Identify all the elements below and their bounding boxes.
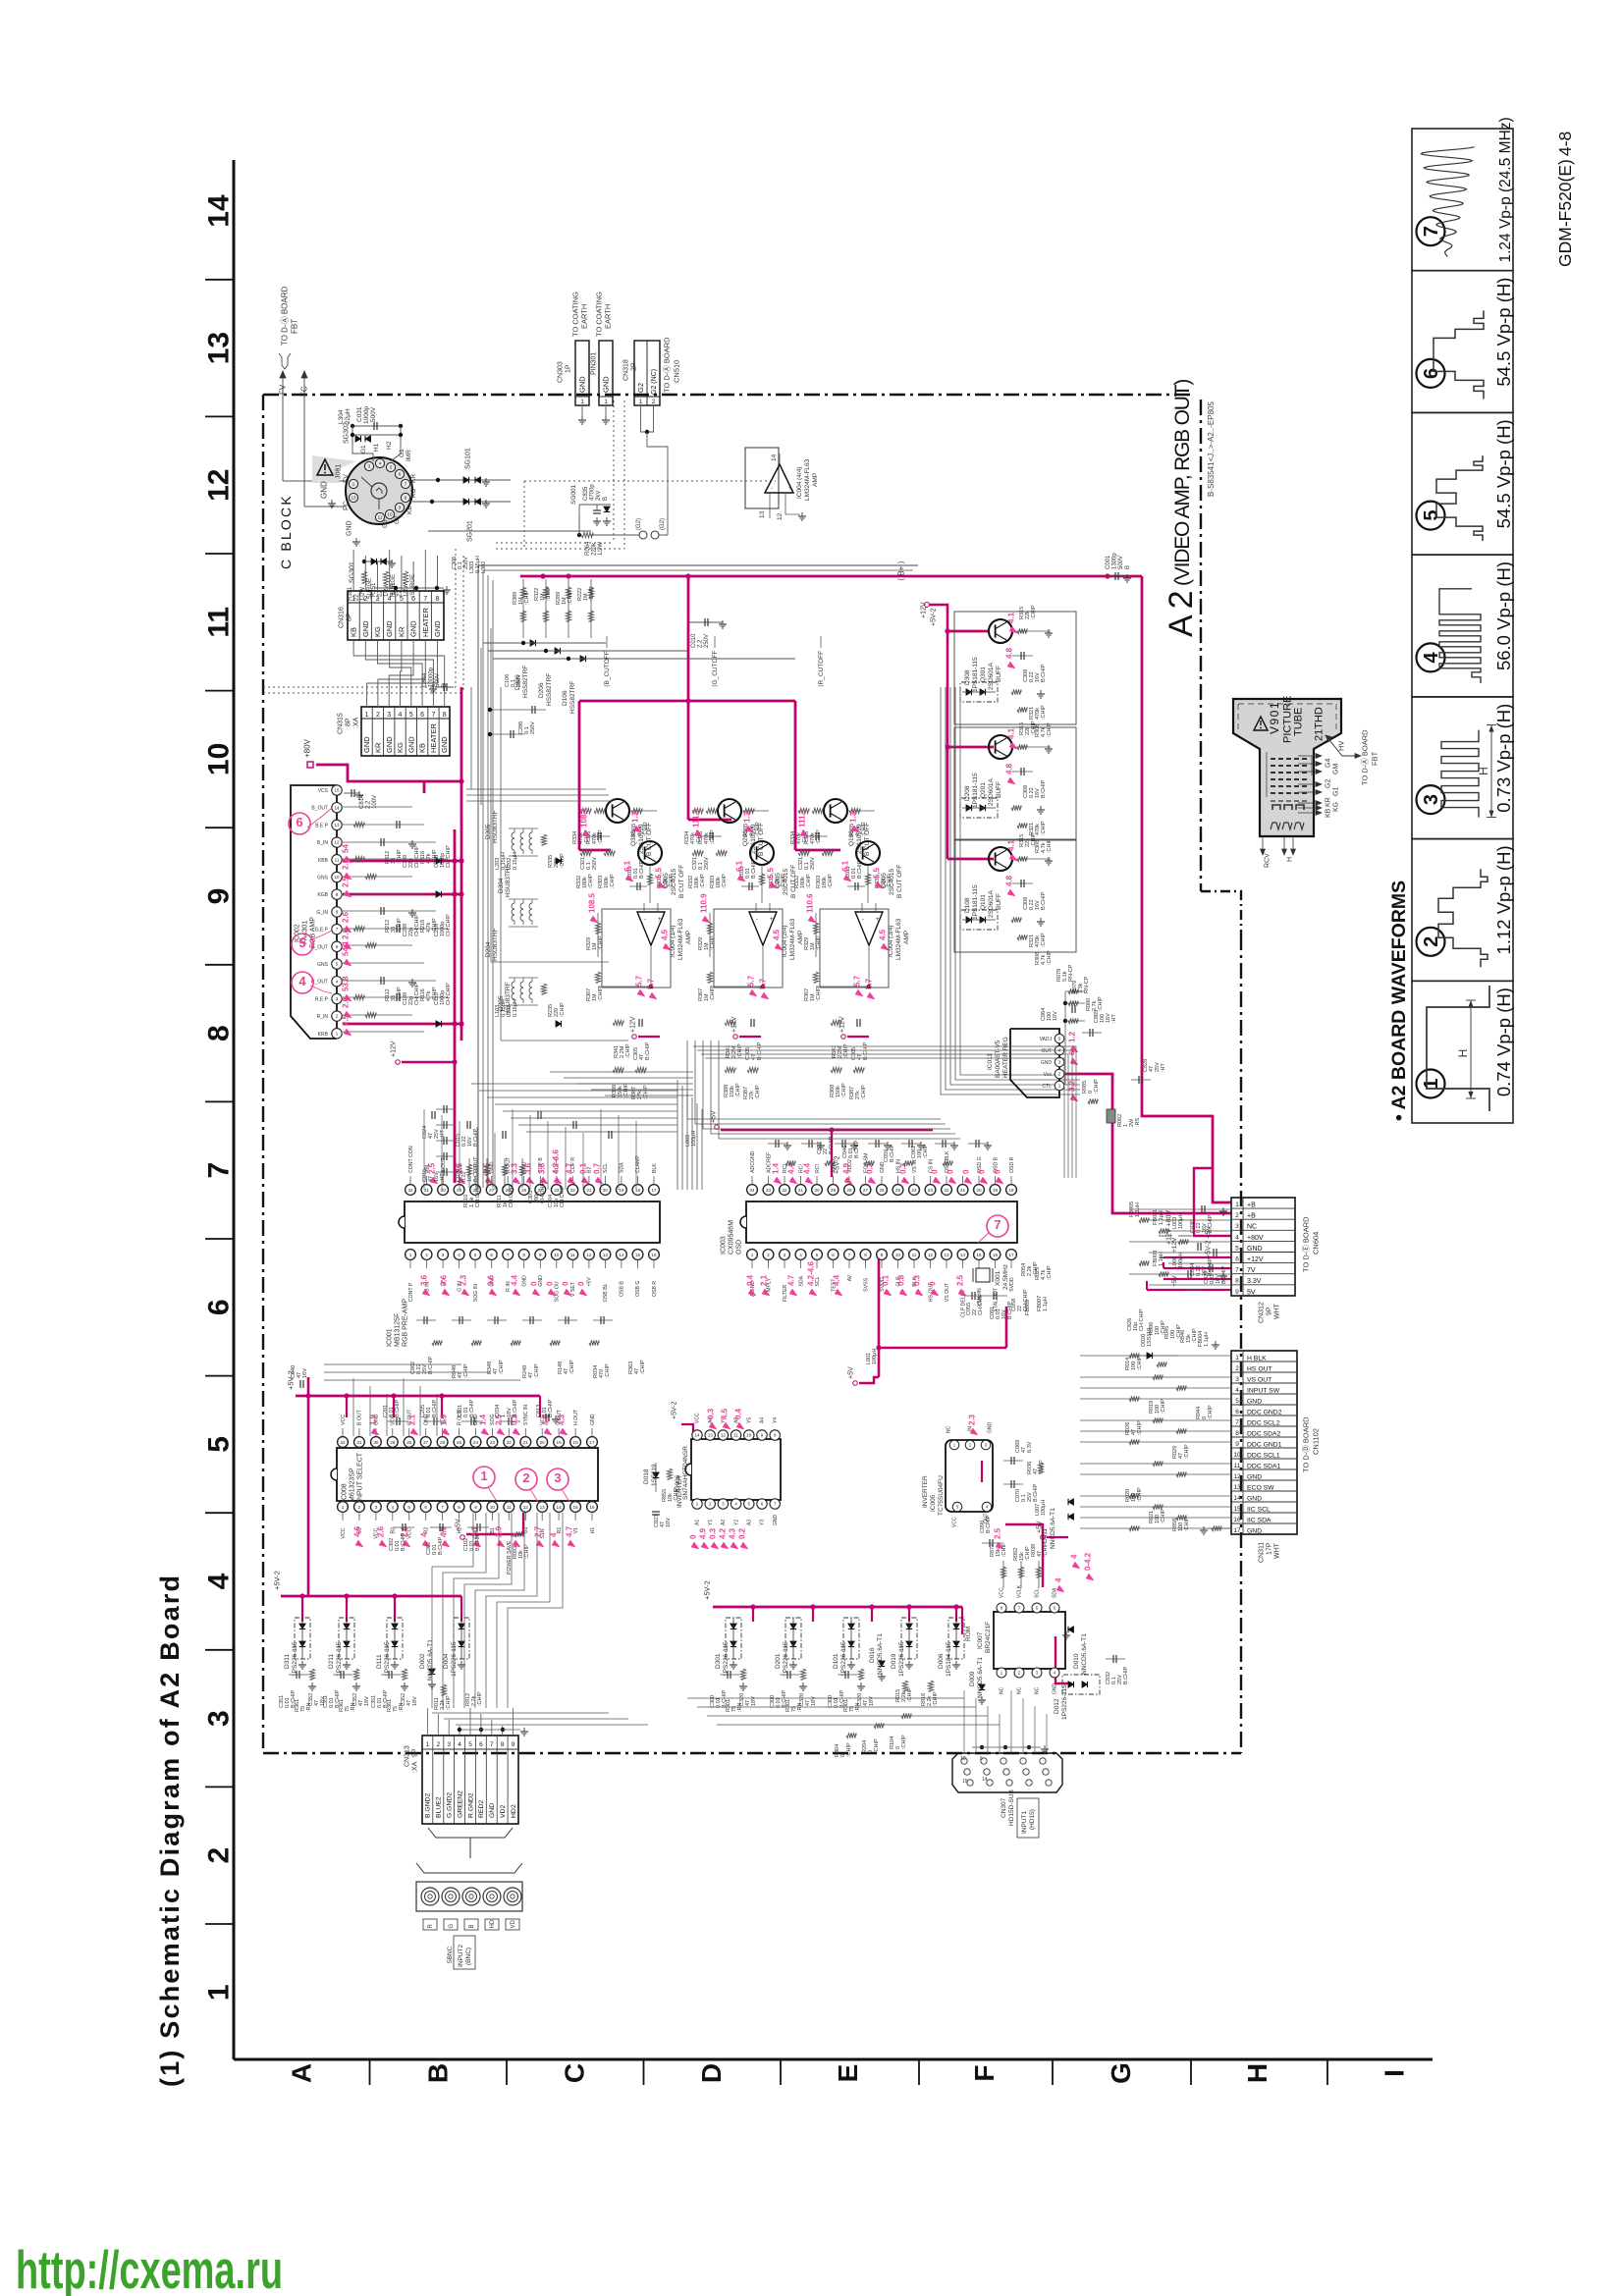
svg-text:R014: R014 bbox=[1125, 1358, 1131, 1370]
svg-text:Q101: Q101 bbox=[980, 894, 987, 910]
caps row above IC001 bbox=[424, 1109, 636, 1190]
svg-text:R303: R303 bbox=[816, 876, 822, 888]
diode array D019 1PS226-115 bbox=[891, 1618, 917, 1677]
connector CN307 HD15D-SUB bbox=[952, 1753, 1062, 1838]
svg-text:R011: R011 bbox=[434, 1697, 440, 1710]
svg-text:5.5: 5.5 bbox=[655, 867, 664, 879]
svg-text:100: 100 bbox=[1131, 1362, 1137, 1370]
svg-text:0.01: 0.01 bbox=[463, 1407, 469, 1417]
svg-text:C816: C816 bbox=[422, 1169, 428, 1182]
svg-text:L007: L007 bbox=[1035, 1504, 1041, 1516]
svg-text:54.5 Vp-p (H): 54.5 Vp-p (H) bbox=[1493, 278, 1514, 387]
IC IC003 CX09546M OSD bbox=[720, 1150, 1017, 1317]
svg-text:TO COATING: TO COATING bbox=[595, 292, 604, 337]
svg-text:+12V: +12V bbox=[390, 1041, 397, 1057]
svg-text:470k: 470k bbox=[592, 832, 598, 844]
svg-text:R334: R334 bbox=[790, 831, 796, 844]
svg-text:ECO SW: ECO SW bbox=[1247, 1485, 1274, 1492]
svg-text::CHIP: :CHIP bbox=[610, 874, 616, 888]
svg-text:H: H bbox=[1286, 857, 1293, 862]
svg-text:C059: C059 bbox=[884, 1149, 890, 1162]
svg-text::CHIP: :CHIP bbox=[781, 874, 786, 888]
svg-text:12: 12 bbox=[777, 512, 784, 520]
svg-text:CX09546M: CX09546M bbox=[728, 1220, 734, 1255]
svg-text::CHIP: :CHIP bbox=[828, 874, 834, 888]
svg-text:HD: HD bbox=[490, 1919, 496, 1928]
svg-text:1PS226-115: 1PS226-115 bbox=[336, 1641, 343, 1677]
svg-text:1PS226-115: 1PS226-115 bbox=[1061, 1684, 1068, 1720]
svg-text:-: - bbox=[644, 917, 646, 923]
svg-text:0.3: 0.3 bbox=[913, 1274, 922, 1286]
svg-text:1PS226-115: 1PS226-115 bbox=[898, 1641, 905, 1677]
svg-text:C058: C058 bbox=[1011, 1299, 1017, 1311]
svg-text:108.1: 108.1 bbox=[580, 807, 589, 828]
svg-text:C001: C001 bbox=[1106, 555, 1111, 569]
svg-text:3: 3 bbox=[375, 1505, 378, 1510]
svg-text:LM324M-FL63: LM324M-FL63 bbox=[789, 918, 796, 960]
svg-text:0: 0 bbox=[978, 1169, 987, 1174]
svg-text:NNCD5.6A-T1: NNCD5.6A-T1 bbox=[1081, 1633, 1088, 1675]
svg-text:1/2W: 1/2W bbox=[404, 583, 409, 597]
svg-text:5.1k: 5.1k bbox=[1062, 971, 1068, 982]
svg-text::RS: :RS bbox=[1135, 1118, 1141, 1128]
waveform box 2: 1.12 Vp-p (H) bbox=[1412, 839, 1514, 982]
svg-text:C308: C308 bbox=[1023, 897, 1029, 910]
svg-text:R916: R916 bbox=[921, 1693, 927, 1706]
svg-text:GM: GM bbox=[1332, 764, 1339, 774]
svg-text:IC003: IC003 bbox=[720, 1236, 727, 1255]
svg-text:RED2: RED2 bbox=[478, 1800, 485, 1818]
svg-text:SDA: SDA bbox=[620, 1162, 625, 1173]
test point 7 (pink) bbox=[978, 1215, 1008, 1243]
svg-text:1M: 1M bbox=[583, 593, 589, 601]
svg-text:CH:CHIP: CH:CHIP bbox=[446, 845, 452, 868]
svg-text:R361: R361 bbox=[387, 1699, 393, 1712]
svg-text:R216: R216 bbox=[420, 920, 426, 933]
svg-text:2.6: 2.6 bbox=[342, 996, 351, 1008]
svg-text:C823: C823 bbox=[654, 1515, 660, 1527]
feedback network ch1 bbox=[692, 808, 783, 1099]
svg-text:Y1: Y1 bbox=[708, 1520, 714, 1525]
svg-text::CHIP: :CHIP bbox=[722, 874, 728, 888]
svg-text:WHT: WHT bbox=[1273, 1303, 1280, 1319]
svg-text:1/2W: 1/2W bbox=[598, 542, 604, 556]
svg-text:RN-CP: RN-CP bbox=[1084, 976, 1090, 993]
svg-text:R029: R029 bbox=[1172, 1446, 1178, 1459]
svg-text:33: 33 bbox=[391, 927, 397, 933]
svg-text:INPUT2: INPUT2 bbox=[458, 1945, 464, 1968]
svg-text:FB007: FB007 bbox=[1037, 1296, 1043, 1311]
svg-text:6: 6 bbox=[296, 815, 302, 829]
svg-text::CHIP: :CHIP bbox=[755, 822, 761, 836]
svg-text:1: 1 bbox=[604, 399, 608, 405]
svg-text::CHIP: :CHIP bbox=[524, 1544, 530, 1559]
svg-text:23: 23 bbox=[928, 1188, 934, 1193]
svg-text:15k: 15k bbox=[996, 1548, 1001, 1557]
svg-text:B:CHIP: B:CHIP bbox=[757, 1041, 763, 1060]
IC IC005 TC75SU04FU INVERTER bbox=[922, 1414, 1003, 1549]
svg-text:+12V: +12V bbox=[1247, 1256, 1264, 1263]
svg-text:19: 19 bbox=[619, 1188, 624, 1193]
svg-text:R367: R367 bbox=[804, 988, 810, 1001]
svg-text:IIC SCL: IIC SCL bbox=[1247, 1507, 1271, 1514]
svg-text:SCL: SCL bbox=[1035, 1588, 1041, 1598]
svg-text:12: 12 bbox=[721, 1433, 727, 1438]
svg-text:R: R bbox=[428, 1924, 434, 1929]
A2 BOARD WAVEFORMS heading bbox=[1388, 881, 1410, 1121]
svg-text::CHIP: :CHIP bbox=[640, 1360, 646, 1374]
svg-text:10: 10 bbox=[895, 1253, 901, 1257]
svg-text:1.3: 1.3 bbox=[849, 811, 858, 823]
svg-text:G.GND2: G.GND2 bbox=[447, 1792, 454, 1818]
svg-text:VS OUT: VS OUT bbox=[945, 1282, 950, 1302]
svg-text:FV: FV bbox=[343, 474, 350, 483]
svg-text:47: 47 bbox=[493, 1368, 499, 1374]
svg-text:4: 4 bbox=[799, 1253, 802, 1257]
svg-text:A4: A4 bbox=[760, 1417, 766, 1423]
svg-text:4.7k: 4.7k bbox=[1041, 954, 1047, 965]
svg-text:L203: L203 bbox=[495, 858, 501, 870]
svg-text:R039: R039 bbox=[1031, 1544, 1037, 1557]
transistor Q101 2SD601A BUFF bbox=[964, 847, 1012, 920]
svg-text:6: 6 bbox=[490, 1253, 493, 1257]
svg-text:R321: R321 bbox=[1029, 707, 1035, 720]
svg-text:+: + bbox=[788, 486, 792, 492]
svg-text:8: 8 bbox=[522, 1253, 525, 1257]
svg-text:0: 0 bbox=[1088, 1091, 1094, 1094]
svg-text:4: 4 bbox=[1235, 1387, 1239, 1394]
svg-text:17P: 17P bbox=[1266, 1542, 1272, 1555]
svg-text:R212: R212 bbox=[385, 920, 391, 933]
svg-text:B:CHIP: B:CHIP bbox=[1123, 1666, 1129, 1684]
svg-text:4.4: 4.4 bbox=[803, 1162, 812, 1174]
svg-text:C320: C320 bbox=[739, 1693, 745, 1706]
diode array D311 1PS226-115 bbox=[284, 1618, 310, 1677]
svg-text:3.6: 3.6 bbox=[487, 1274, 496, 1286]
zener D010 D011 NNCD5.6A-T1 bbox=[1042, 1499, 1094, 1675]
svg-text:31: 31 bbox=[798, 1188, 804, 1193]
svg-text::CHIP: :CHIP bbox=[569, 1360, 575, 1374]
svg-text:4.7k: 4.7k bbox=[426, 990, 432, 1001]
svg-text:B: B bbox=[603, 497, 609, 501]
svg-text:4: 4 bbox=[399, 712, 403, 719]
svg-text:R388: R388 bbox=[830, 1085, 836, 1097]
svg-text:KR: KR bbox=[1325, 797, 1331, 807]
svg-text::CHIP: :CHIP bbox=[710, 935, 716, 950]
svg-text:⟨ B+ ⟩: ⟨ B+ ⟩ bbox=[897, 561, 906, 581]
svg-text:7: 7 bbox=[203, 1162, 236, 1179]
svg-text:4.7: 4.7 bbox=[566, 1525, 574, 1537]
svg-text:1.3: 1.3 bbox=[631, 811, 640, 823]
svg-text:VCC: VCC bbox=[695, 1413, 701, 1423]
IC IC008 M61323SP INPUT SELECT bbox=[331, 1405, 598, 1575]
svg-text:(1) Schematic Diagram of A2 B: (1) Schematic Diagram of A2 Board bbox=[155, 1574, 185, 2087]
svg-text:1: 1 bbox=[480, 1468, 487, 1483]
connector CN312 9P WHT bbox=[1231, 1198, 1321, 1323]
svg-text:12: 12 bbox=[523, 1505, 529, 1510]
svg-text:4.1: 4.1 bbox=[1007, 727, 1016, 739]
svg-text:32: 32 bbox=[340, 1440, 346, 1445]
svg-text:6: 6 bbox=[420, 712, 424, 719]
svg-text:0.4: 0.4 bbox=[746, 1274, 755, 1286]
svg-text:R301: R301 bbox=[843, 1699, 849, 1712]
svg-text:GND: GND bbox=[362, 736, 371, 753]
svg-text:100: 100 bbox=[1100, 1014, 1106, 1023]
socket electrode labels bbox=[320, 422, 418, 546]
IC006 pin annotations (pink) bbox=[689, 1408, 748, 1549]
svg-text:KG: KG bbox=[1332, 802, 1339, 812]
svg-text:9: 9 bbox=[1235, 1289, 1239, 1296]
svg-text::CHIP: :CHIP bbox=[710, 987, 716, 1001]
svg-text:R322: R322 bbox=[534, 588, 540, 601]
svg-text:H OUT: H OUT bbox=[573, 1409, 579, 1425]
svg-text:G1: G1 bbox=[1332, 787, 1339, 796]
svg-text:1M: 1M bbox=[540, 593, 546, 601]
svg-text:220k: 220k bbox=[592, 542, 598, 556]
svg-text:R367: R367 bbox=[586, 988, 592, 1001]
svg-text:L002: L002 bbox=[685, 1135, 691, 1147]
svg-text:R387: R387 bbox=[743, 1087, 749, 1099]
svg-text:16V: 16V bbox=[1106, 1013, 1111, 1023]
op-amp IC004 (1/4) LM324M-FL63 bbox=[586, 860, 692, 1001]
svg-text:R025: R025 bbox=[1035, 1267, 1041, 1280]
svg-text:10: 10 bbox=[334, 875, 340, 880]
opamp cell outlines bbox=[602, 909, 889, 988]
svg-text:GND: GND bbox=[489, 1803, 496, 1818]
svg-text:47: 47 bbox=[751, 1054, 757, 1060]
base resistor network ch2 bbox=[790, 808, 893, 903]
svg-text:H1: H1 bbox=[590, 1527, 596, 1534]
svg-text:5.7: 5.7 bbox=[747, 975, 756, 987]
svg-text:3.3k: 3.3k bbox=[1078, 983, 1084, 993]
svg-text:B.GND2: B.GND2 bbox=[425, 1792, 432, 1818]
svg-text:NNCD5.6A-T1: NNCD5.6A-T1 bbox=[877, 1633, 884, 1675]
svg-text:(HD15): (HD15) bbox=[1029, 1809, 1036, 1830]
svg-text:VCC: VCC bbox=[341, 1415, 347, 1425]
svg-text:R148: R148 bbox=[558, 1362, 564, 1374]
svg-text:GND: GND bbox=[773, 1515, 779, 1526]
svg-text:B CUT OFF: B CUT OFF bbox=[678, 865, 685, 898]
diode array D301 1PS226-115 bbox=[715, 1618, 741, 1677]
svg-text:D019: D019 bbox=[891, 1653, 897, 1669]
svg-text::CHIP: :CHIP bbox=[1001, 1542, 1007, 1557]
svg-text:4700p: 4700p bbox=[590, 484, 596, 501]
svg-text:1: 1 bbox=[365, 712, 369, 719]
svg-text:2.5: 2.5 bbox=[342, 876, 351, 887]
svg-text:180k: 180k bbox=[604, 877, 610, 888]
svg-text:D206: D206 bbox=[538, 682, 545, 698]
svg-text:CN316: CN316 bbox=[338, 607, 345, 628]
svg-text:R361: R361 bbox=[339, 1699, 345, 1712]
svg-text:12: 12 bbox=[1233, 1473, 1241, 1480]
svg-text:8: 8 bbox=[203, 1025, 236, 1041]
svg-text:7: 7 bbox=[994, 1217, 1001, 1232]
svg-text:R086: R086 bbox=[1149, 1322, 1155, 1335]
FV FC lines to FBT bbox=[279, 286, 346, 507]
svg-text:L304: L304 bbox=[338, 409, 345, 424]
svg-text:4: 4 bbox=[298, 974, 306, 988]
svg-text:4.7k: 4.7k bbox=[1041, 726, 1047, 737]
svg-text:B:CHIP: B:CHIP bbox=[469, 1399, 475, 1417]
svg-text:C308: C308 bbox=[1023, 785, 1029, 798]
svg-text:KG: KG bbox=[410, 489, 417, 498]
svg-text:4.5: 4.5 bbox=[721, 1408, 730, 1419]
svg-text:2.5: 2.5 bbox=[956, 1274, 965, 1286]
IC001 pin annotations (pink) bbox=[420, 1149, 603, 1296]
base resistor network ch0 bbox=[572, 808, 675, 903]
svg-text:15k: 15k bbox=[1019, 1552, 1025, 1561]
svg-text:4: 4 bbox=[388, 596, 392, 603]
svg-text:SOG IN: SOG IN bbox=[473, 1284, 479, 1302]
svg-text:R045: R045 bbox=[1164, 1326, 1170, 1339]
svg-text:R332: R332 bbox=[794, 876, 800, 888]
transistor Q306 2SA10910 B CUT OFF bbox=[606, 799, 653, 856]
svg-text:180k: 180k bbox=[800, 877, 806, 888]
svg-text:BR24C21F: BR24C21F bbox=[985, 1622, 992, 1653]
border frame ruler lines bbox=[234, 160, 1433, 2059]
svg-text:4.2: 4.2 bbox=[719, 1527, 728, 1539]
svg-text:⟨G_CUTOFF: ⟨G_CUTOFF bbox=[711, 651, 719, 687]
svg-text:2: 2 bbox=[522, 1470, 529, 1485]
svg-text:+12V: +12V bbox=[629, 1016, 636, 1033]
svg-text:9: 9 bbox=[203, 888, 236, 905]
svg-text:AMP: AMP bbox=[685, 931, 692, 944]
svg-text:INVERTER: INVERTER bbox=[676, 1475, 683, 1508]
svg-text::CHIP: :CHIP bbox=[841, 1083, 847, 1097]
svg-text:C303: C303 bbox=[528, 1191, 534, 1203]
svg-text:CTL: CTL bbox=[1043, 1084, 1053, 1090]
svg-text:13: 13 bbox=[351, 496, 356, 501]
op-amp IC004 (4/4) LM324M-FL63 AMP bbox=[745, 448, 819, 520]
svg-text:R341: R341 bbox=[614, 1045, 620, 1058]
svg-text:TO COATING: TO COATING bbox=[571, 292, 580, 337]
zener D002 NNCD5.6A-T1 bbox=[419, 1639, 436, 1688]
waveform box 4: 56.0 Vp-p (H) bbox=[1412, 555, 1514, 697]
svg-text:VS OUT: VS OUT bbox=[1247, 1377, 1271, 1384]
svg-text:B:CHIP: B:CHIP bbox=[1041, 891, 1047, 910]
svg-text:GND: GND bbox=[1053, 1683, 1058, 1695]
svg-text:2: 2 bbox=[363, 596, 367, 603]
svg-text:CH:CHIP: CH:CHIP bbox=[978, 1293, 984, 1315]
svg-text:1M: 1M bbox=[592, 942, 598, 950]
svg-text::CHIP: :CHIP bbox=[755, 1085, 761, 1099]
svg-text:5: 5 bbox=[409, 712, 413, 719]
svg-text:B:CHIP: B:CHIP bbox=[645, 1041, 651, 1060]
svg-text:Vcc: Vcc bbox=[1044, 1072, 1053, 1078]
R304 R204 R104 zero ohm links bbox=[835, 1713, 911, 1757]
connector CN303 1P bbox=[557, 292, 589, 424]
svg-text:54.1: 54.1 bbox=[342, 940, 351, 956]
svg-text::CHIP: :CHIP bbox=[816, 935, 822, 950]
svg-text:15: 15 bbox=[635, 1253, 641, 1257]
svg-text:HSS82TRF: HSS82TRF bbox=[569, 681, 576, 714]
svg-text:G1: G1 bbox=[399, 449, 406, 457]
svg-text:B:CHIP: B:CHIP bbox=[1041, 779, 1047, 798]
CRT tube socket bbox=[346, 457, 412, 524]
transistor Q305 2SC4015 B CUT OFF bbox=[638, 841, 685, 898]
svg-text:1300p: 1300p bbox=[1112, 553, 1118, 569]
svg-text:18V: 18V bbox=[869, 1696, 875, 1706]
svg-text:TC75SU04FU: TC75SU04FU bbox=[938, 1475, 945, 1516]
svg-text:C106: C106 bbox=[505, 674, 511, 687]
svg-text:6: 6 bbox=[1235, 1409, 1239, 1415]
svg-text:0.01: 0.01 bbox=[389, 1407, 395, 1417]
svg-text:R078: R078 bbox=[1056, 969, 1062, 982]
svg-text:29: 29 bbox=[831, 1188, 837, 1193]
svg-text:SN74AHCT04NSR: SN74AHCT04NSR bbox=[682, 1446, 689, 1500]
svg-text:7: 7 bbox=[1235, 1267, 1239, 1274]
wire +80V feed to CN312 (pink) bbox=[1142, 576, 1231, 1236]
svg-text:⟨B_CUTOFF: ⟨B_CUTOFF bbox=[603, 651, 611, 687]
svg-text:0.1: 0.1 bbox=[1021, 1494, 1027, 1502]
svg-text:DDC SDA1: DDC SDA1 bbox=[1247, 1464, 1281, 1470]
svg-text::CHIP: :CHIP bbox=[625, 1043, 631, 1058]
svg-text:OSD R: OSD R bbox=[1009, 1156, 1015, 1173]
heater reg resistor divider R078 R079 R080 bbox=[1041, 964, 1117, 1085]
svg-text:SYNC IN: SYNC IN bbox=[523, 1405, 529, 1425]
svg-text:23: 23 bbox=[490, 1440, 496, 1445]
bus wires IC001-IC003 up to video stage bbox=[471, 1080, 702, 1190]
svg-text:C110: C110 bbox=[434, 992, 440, 1005]
svg-text:D101: D101 bbox=[833, 1653, 839, 1669]
diode row D306 D206 D106 reposition bbox=[483, 640, 795, 662]
svg-text:47: 47 bbox=[314, 1700, 320, 1706]
svg-text:0.01: 0.01 bbox=[377, 1697, 383, 1708]
svg-text:2P: 2P bbox=[630, 362, 637, 371]
buffer components Q301 bbox=[1005, 605, 1053, 737]
svg-text:47: 47 bbox=[863, 1700, 869, 1706]
svg-text:I: I bbox=[1379, 2069, 1409, 2077]
svg-text:100: 100 bbox=[1155, 1515, 1161, 1523]
svg-text:R329: R329 bbox=[698, 937, 704, 950]
svg-text:6.3V: 6.3V bbox=[1027, 1441, 1033, 1453]
svg-text:A2: A2 bbox=[1163, 584, 1200, 637]
svg-text:2: 2 bbox=[652, 399, 656, 405]
svg-text:R015: R015 bbox=[895, 1689, 901, 1702]
waveform box 7: 1.24 Vp-p (24.5 MHz) bbox=[1412, 117, 1514, 270]
svg-text:+12V +80V: +12V +80V bbox=[1165, 1210, 1172, 1245]
svg-text:VCS: VCS bbox=[318, 788, 329, 794]
svg-text:C034: C034 bbox=[495, 1405, 501, 1417]
svg-text:GND: GND bbox=[385, 736, 394, 753]
svg-text:G_IN: G_IN bbox=[316, 910, 328, 916]
diode array D101 1PS226-115 bbox=[833, 1618, 859, 1677]
svg-text:4-8: 4-8 bbox=[1555, 132, 1575, 156]
svg-text:R367: R367 bbox=[698, 988, 704, 1001]
svg-text:+: + bbox=[770, 917, 774, 923]
svg-text:A2: A2 bbox=[721, 1520, 727, 1525]
svg-text:RC!: RC! bbox=[815, 1164, 821, 1173]
svg-text:CN307: CN307 bbox=[1001, 1797, 1007, 1818]
svg-text:21: 21 bbox=[586, 1188, 592, 1193]
svg-text:R079: R079 bbox=[1072, 981, 1078, 993]
transistor Q206 2SA10910 B CUT OFF bbox=[718, 799, 765, 856]
svg-text:NC: NC bbox=[947, 1425, 952, 1433]
svg-text:C352: C352 bbox=[401, 1693, 406, 1706]
svg-text:25V: 25V bbox=[422, 1364, 428, 1374]
svg-text:R082: R082 bbox=[1117, 1114, 1123, 1127]
svg-text:DDC GND2: DDC GND2 bbox=[1247, 1410, 1282, 1416]
svg-text:2SD601A: 2SD601A bbox=[988, 778, 995, 806]
svg-text:D006: D006 bbox=[938, 1653, 945, 1669]
svg-text:5V: 5V bbox=[1247, 1289, 1256, 1296]
svg-text:G.E.P: G.E.P bbox=[315, 928, 329, 934]
svg-text:25V: 25V bbox=[1155, 1062, 1161, 1072]
svg-text:5: 5 bbox=[980, 1756, 983, 1762]
C001 1300p cap at B+ right end bbox=[1106, 553, 1131, 582]
svg-text:6: 6 bbox=[203, 1299, 236, 1315]
tube electrode arrows KB KG KR G1 G2 GM G4 bbox=[1298, 754, 1339, 819]
